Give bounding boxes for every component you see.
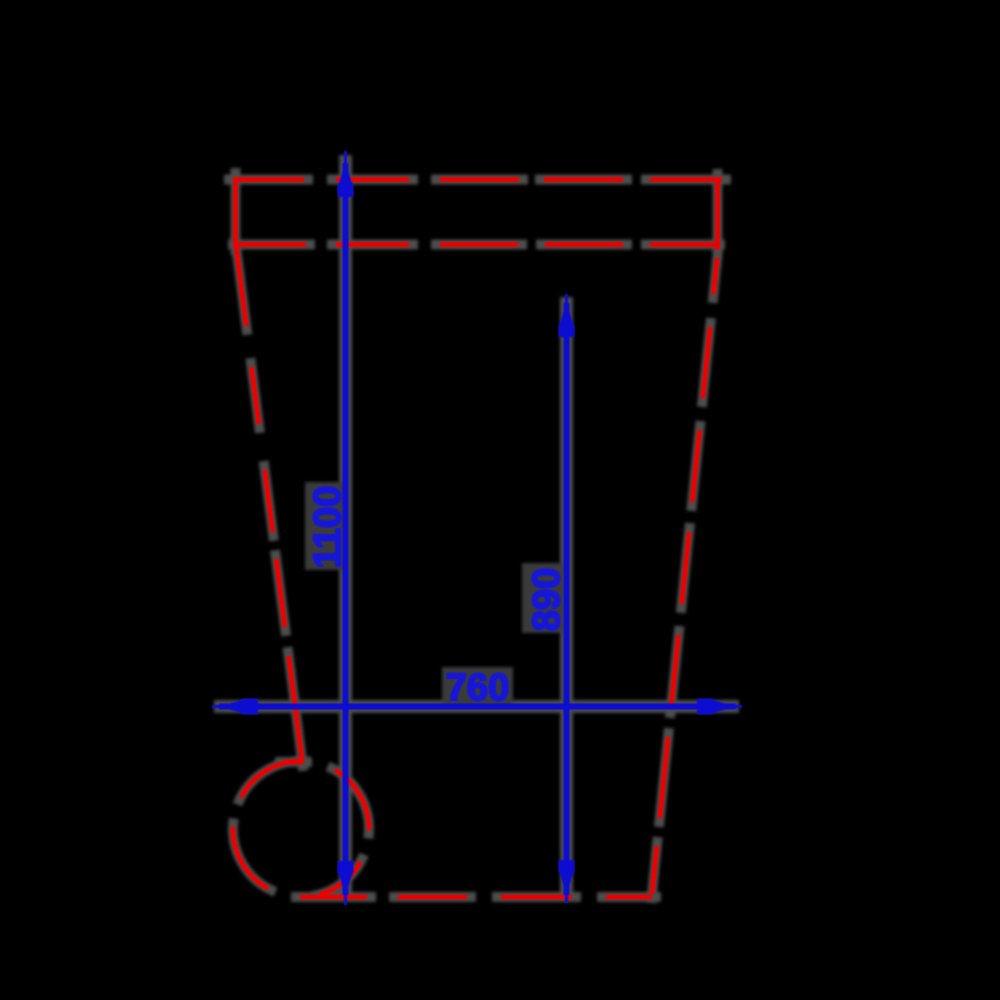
svg-text:760: 760 (446, 667, 509, 709)
svg-text:890: 890 (526, 568, 568, 631)
svg-text:1100: 1100 (307, 486, 349, 568)
